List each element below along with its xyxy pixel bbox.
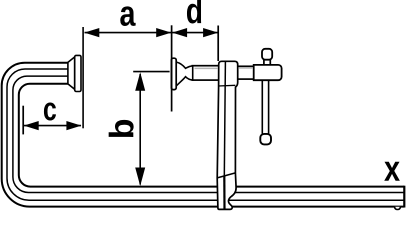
rail end cap [403,186,405,208]
dimension c line [24,125,81,127]
dimension d right arrow [203,28,218,37]
wire rail line 3 [13,76,404,192]
sliding arm with slider sleeve [217,61,238,209]
dimension a line [85,32,172,34]
movable pad face line / extension line for a-d [171,25,173,111]
slider top slope line [217,173,235,178]
slider front edge line [223,176,225,209]
movable pad plate [171,58,176,89]
label b (rotated) [109,120,134,137]
tommy bar bottom knob [260,134,271,145]
label d [187,0,201,23]
dimension b bottom arrow [135,168,145,187]
fixed jaw flange trapezoid [68,57,75,89]
spindle rod left (threaded) [192,66,222,80]
movable pad cone and neck [176,62,193,86]
arm bevel line [224,62,225,177]
label c [44,102,56,120]
dimension c left arrow [24,121,39,130]
fixed jaw pressure plate [75,55,81,91]
dimension c right arrow [66,121,81,130]
arm head bottom edge line [218,84,235,87]
spindle head [254,65,282,80]
dimension b top arrow [135,72,145,91]
wire rail inner line (rail top) [19,84,405,187]
fixed jaw face line / extension line for a and c [82,27,84,128]
label x [384,162,400,181]
dimension a left arrow [84,28,99,37]
spindle rod right [234,66,254,79]
dimension a right arrow [156,28,171,37]
spindle highlight line [195,67,218,69]
tommy bar top stem [264,57,270,66]
extension line for c left [22,106,24,135]
dimension b top reference tick [133,71,169,73]
tommy bar top knob [262,49,272,60]
wire rail line 2 [7,69,404,200]
label a [120,6,135,26]
wire rail outer line (top arm top / left / rail bottom) [2,63,405,207]
dimension d line [172,32,218,34]
dimension d left arrow [172,28,187,37]
spindle highlight line right [239,67,252,69]
extension line for d right [217,26,219,62]
rail end stop pin [395,207,401,210]
tommy bar lower rod [262,78,268,135]
dimension b line [139,74,141,185]
